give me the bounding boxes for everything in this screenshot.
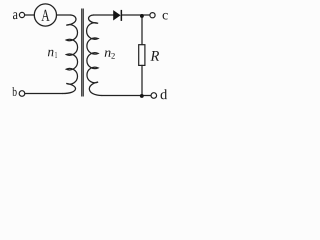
terminal b	[19, 91, 25, 97]
label n2	[105, 51, 111, 57]
label c	[163, 13, 168, 20]
label n1 subscript 1	[55, 52, 57, 58]
wire node down to resistor	[141, 15, 143, 45]
ammeter A	[34, 4, 56, 26]
wire ammeter to primary winding	[57, 14, 71, 16]
transformer primary winding n1	[63, 15, 78, 94]
wire primary winding to terminal b	[25, 93, 63, 95]
label a	[13, 12, 18, 19]
junction node at diode output	[140, 14, 144, 18]
wire resistor to bottom node	[141, 65, 143, 95]
diode cathode bar	[121, 10, 123, 21]
transformer core line left	[81, 9, 83, 97]
label b	[12, 87, 17, 96]
junction node at bottom wire	[140, 94, 144, 98]
terminal d	[151, 93, 157, 99]
resistor R body	[139, 45, 145, 66]
diode anode triangle	[113, 10, 120, 20]
wire diode to terminal c	[122, 14, 150, 16]
label d	[161, 89, 168, 99]
terminal a	[19, 12, 24, 17]
transformer secondary winding n2	[87, 15, 102, 96]
wire secondary winding to diode	[93, 14, 113, 16]
label R	[150, 51, 159, 61]
transformer core line right	[82, 9, 84, 97]
label n2 subscript 2	[111, 53, 114, 59]
wire secondary winding to terminal d	[102, 95, 151, 97]
ammeter label A	[41, 10, 49, 21]
terminal c	[150, 13, 155, 18]
wire a to ammeter	[25, 14, 35, 16]
label n1	[48, 50, 54, 57]
